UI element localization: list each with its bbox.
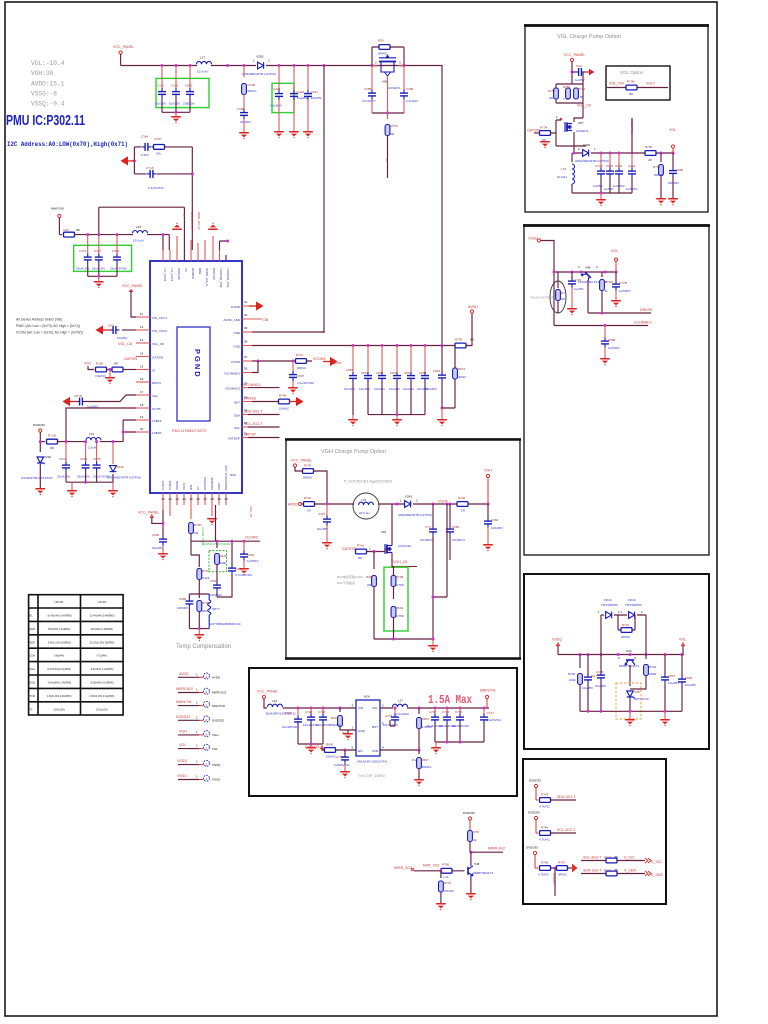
resistor R75D [566, 88, 571, 99]
svg-text:R740: R740 [458, 496, 466, 500]
svg-text:AVDD_GA_E: AVDD_GA_E [205, 268, 209, 286]
svg-text:CY?: CY? [425, 525, 431, 529]
caps CY C360 [432, 504, 434, 526]
main VGL rail [574, 152, 674, 154]
svg-text:EN: EN [358, 749, 362, 753]
resistor R73W [601, 272, 603, 277]
svg-text:10k/NC: 10k/NC [279, 407, 290, 411]
capacitor C60 [571, 71, 574, 74]
svg-text:GHD: GHD [29, 627, 35, 631]
svg-text:APD240EVRTR-G1?PUK: APD240EVRTR-G1?PUK [398, 513, 432, 517]
svg-text:VCOM3: VCOM3 [313, 357, 326, 361]
svg-text:DVDD33: DVDD33 [529, 779, 541, 783]
svg-text:VCOMADJ: VCOMADJ [225, 387, 241, 391]
svg-text:28: 28 [211, 497, 215, 501]
svg-text:U92: U92 [626, 649, 632, 653]
svg-text:40: 40 [244, 313, 248, 317]
wire OSE pin39 [252, 332, 324, 333]
svg-text:LXAVDD_C52: LXAVDD_C52 [219, 268, 223, 288]
svg-text:IO: IO [152, 369, 156, 373]
svg-text:C303: C303 [615, 164, 623, 168]
svg-text:VGHT: VGHT [438, 500, 449, 504]
svg-text:VIN_VCC1: VIN_VCC1 [152, 316, 167, 320]
ground pin29 [207, 518, 217, 525]
svg-text:R684: R684 [422, 717, 430, 721]
svg-text:GATSIN: GATSIN [124, 357, 138, 361]
svg-text:V245: V245 [405, 495, 412, 499]
svg-text:VSSQ: VSSQ [552, 638, 562, 642]
svg-text:PGND: PGND [231, 305, 241, 309]
svg-text:47k/NC: 47k/NC [444, 889, 455, 893]
svg-text:VCOM3: VCOM3 [331, 361, 342, 365]
svg-text:C317: C317 [94, 249, 102, 253]
svg-text:S_SDA: S_SDA [651, 873, 663, 877]
svg-text:VCC_PANEL: VCC_PANEL [113, 45, 134, 49]
svg-text:C301: C301 [112, 249, 120, 253]
capacitor C800 [159, 536, 167, 546]
svg-text:C73?: C73? [385, 714, 393, 718]
inductor L20 [133, 231, 148, 234]
svg-text:VCOMADJ: VCOMADJ [634, 321, 652, 325]
capacitor C301 [116, 235, 118, 254]
wire loop bottom [134, 173, 192, 175]
svg-text:TMT4RWNC: TMT4RWNC [601, 603, 619, 607]
svg-text:R?41: R?41 [622, 623, 630, 627]
svg-text:LXB19: LXB19 [152, 419, 162, 423]
capacitor C845 [367, 346, 369, 373]
svg-text:39: 39 [244, 326, 248, 330]
resistor R974 [442, 346, 455, 409]
svg-text:1u/25V: 1u/25V [574, 287, 584, 291]
IC U1 P302.11 body [150, 261, 242, 493]
svg-text:10u/25V: 10u/25V [152, 546, 163, 550]
svg-text:SCL-3G2-T: SCL-3G2-T [583, 856, 602, 860]
svg-text:2.2u/16V: 2.2u/16V [406, 99, 418, 103]
svg-text:GCBPG9: GCBPG9 [203, 477, 207, 490]
svg-text:VGL: VGL [152, 394, 158, 398]
svg-text:1u/50XV: 1u/50XV [626, 187, 638, 191]
bottom bus b1 [572, 192, 632, 194]
capacitor C389 [403, 66, 405, 91]
capacitor CY78 [615, 272, 617, 281]
svg-text:20k: 20k [367, 583, 372, 587]
svg-text:TMT4RWNC: TMT4RWNC [625, 603, 643, 607]
resistor R740 [457, 502, 468, 507]
svg-text:0R/NC: 0R/NC [248, 89, 258, 93]
svg-text:3G: 3G [385, 158, 389, 162]
resistor R734 [534, 132, 539, 134]
svg-text:23: 23 [176, 497, 180, 501]
svg-text:GATSIN: GATSIN [152, 356, 163, 360]
svg-text:5R/NC: 5R/NC [654, 173, 664, 177]
svg-text:C84?: C84? [390, 371, 398, 375]
svg-text:AO3407L: AO3407L [388, 86, 401, 90]
svg-text:VSSQ: VSSQ [212, 763, 221, 767]
svg-text:0.42k: 0.42k [202, 576, 210, 580]
svg-text:L20: L20 [136, 225, 141, 229]
svg-text:C467: C467 [318, 512, 326, 516]
svg-text:3k: 3k [605, 289, 609, 293]
svg-text:R745: R745 [455, 338, 463, 342]
svg-text:X.2: X.2 [412, 758, 417, 762]
svg-text:RY4B: RY4B [248, 83, 256, 87]
diode V245 [405, 501, 411, 508]
svg-text:C866: C866 [676, 168, 684, 172]
svg-text:10u/25V/NC: 10u/25V/NC [282, 725, 299, 729]
svg-text:17: 17 [140, 390, 144, 394]
diode V206 [583, 150, 589, 157]
svg-text:38: 38 [244, 340, 248, 344]
svg-text:VCC_PANEL: VCC_PANEL [122, 284, 143, 288]
resistor R742 b4 [645, 655, 647, 660]
svg-text:22u/6.3V/NC: 22u/6.3V/NC [452, 724, 470, 728]
conn DVDD33 [176, 715, 224, 723]
green box cap C223 [272, 83, 294, 112]
svg-text:R940: R940 [220, 554, 228, 558]
svg-text:SDA: SDA [234, 414, 241, 418]
capacitor C949 [231, 541, 233, 565]
svg-text:S_SCL: S_SCL [624, 856, 635, 860]
wire bottom bus left [66, 481, 113, 483]
svg-text:C84?: C84? [376, 371, 384, 375]
svg-text:R734: R734 [540, 126, 548, 130]
svg-text:PGN D3: PGN D3 [212, 268, 216, 280]
svg-text:R694: R694 [331, 716, 339, 720]
conn MIRR-3G2 [176, 687, 227, 695]
mosfet V59 [372, 65, 404, 67]
svg-text:C304: C304 [628, 164, 636, 168]
svg-text:0R/NC: 0R/NC [378, 52, 388, 56]
svg-text:R692: R692 [326, 743, 334, 747]
svg-text:C800: C800 [152, 533, 160, 537]
svg-text:2.2uH: 2.2uH [88, 446, 96, 450]
svg-text:C821: C821 [433, 369, 441, 373]
svg-text:V98: V98 [585, 266, 591, 270]
svg-text:2.2u/16V/NC: 2.2u/16V/NC [297, 381, 315, 385]
svg-text:VGL Charge Pump Option: VGL Charge Pump Option [557, 34, 621, 40]
svg-text:19: 19 [140, 415, 144, 419]
box 2 VGL aux [524, 225, 709, 555]
capacitor CH16 [293, 66, 295, 91]
svg-text:0R/NC: 0R/NC [558, 873, 568, 877]
box 5 buck 1.5A [249, 668, 517, 796]
bottom bus b5 [435, 741, 484, 743]
svg-text:CY1?: CY1? [595, 164, 603, 168]
svg-text:10.0uH: 10.0uH [557, 175, 567, 179]
svg-text:22u/6.3V): 22u/6.3V) [77, 475, 90, 479]
resistor R72 [468, 831, 473, 842]
red arrow r3 [572, 864, 578, 873]
svg-text:V59: V59 [382, 80, 388, 84]
svg-text:GB: GB [263, 318, 269, 322]
ground cap bus [396, 415, 398, 419]
svg-text:C84?: C84? [361, 371, 369, 375]
svg-text:C949: C949 [235, 567, 243, 571]
svg-text:VFB: VFB [372, 749, 378, 753]
svg-text:C308: C308 [237, 107, 245, 111]
svg-text:R59: R59 [378, 39, 384, 43]
svg-text:200k: 200k [220, 561, 227, 565]
svg-text:22u/6.3V): 22u/6.3V) [76, 267, 89, 271]
svg-text:DVDD33: DVDD33 [528, 811, 540, 815]
svg-text:VGH_C8: VGH_C8 [249, 506, 253, 518]
svg-text:L17: L17 [398, 699, 403, 703]
svg-text:10u/25V: 10u/25V [403, 387, 414, 391]
gnd pin b5 [348, 730, 356, 733]
capacitor C121 [161, 66, 163, 89]
svg-text:SW: SW [372, 706, 377, 710]
capacitor C364 [142, 143, 152, 151]
svg-text:AVDD_ASD: AVDD_ASD [224, 318, 241, 322]
grounds b1 right [656, 198, 666, 205]
svg-text:LXAVDD_C51: LXAVDD_C51 [226, 268, 230, 288]
svg-text:C808: C808 [608, 338, 616, 342]
ground [175, 112, 177, 116]
svg-text:CH?: CH? [591, 674, 597, 678]
wire OSE riser [323, 66, 325, 334]
resistor R940 [215, 554, 220, 565]
capacitor C302 [609, 153, 611, 168]
svg-text:10.0 uH: 10.0 uH [133, 239, 144, 243]
svg-text:29: 29 [218, 497, 222, 501]
svg-text:MMBT3904LT1: MMBT3904LT1 [473, 871, 494, 875]
diode V22B [258, 62, 264, 69]
svg-text:VSSQ: VSSQ [528, 237, 538, 241]
svg-text:SET: SET [234, 401, 240, 405]
svg-text:C388: C388 [364, 87, 372, 91]
resistor R70 [440, 871, 442, 878]
svg-text:C730: C730 [318, 710, 326, 714]
svg-text:VGL_INV: VGL_INV [609, 82, 625, 86]
svg-text:C22: C22 [63, 228, 69, 232]
svg-text:26: 26 [197, 497, 201, 501]
svg-text:S: S [183, 213, 185, 217]
resistor R737 [154, 145, 165, 150]
svg-text:CT1?: CT1? [487, 711, 495, 715]
svg-text:R?: R? [561, 291, 565, 295]
capacitor C940 [213, 582, 221, 592]
svg-text:14: 14 [140, 352, 144, 356]
bottom bus b3 [374, 638, 433, 640]
IC N24 [356, 700, 380, 756]
svg-text:10k/NC: 10k/NC [422, 765, 433, 769]
svg-text:L27: L27 [200, 56, 205, 60]
svg-text:M0R_3G2: M0R_3G2 [423, 864, 439, 868]
svg-text:R?5?: R?5? [558, 861, 566, 865]
capacitor CY b4 [587, 655, 589, 675]
svg-text:PGN D8: PGN D8 [177, 268, 181, 280]
svg-text:CH17: CH17 [311, 90, 319, 94]
svg-text:N00: N00 [230, 473, 236, 477]
wire cap bus [88, 275, 117, 277]
svg-text:R15?: R15? [548, 89, 556, 93]
mosfet loop top wire [372, 47, 404, 66]
svg-text:R?85: R?85 [442, 863, 450, 867]
resistor R698 [418, 750, 420, 754]
IC bottom pin stubs [163, 493, 226, 519]
svg-text:C728: C728 [284, 711, 292, 715]
resistor R280 [373, 552, 375, 570]
svg-text:S_SDA: S_SDA [624, 869, 636, 873]
svg-text:3.3k/NC: 3.3k/NC [95, 374, 107, 378]
svg-text:DVDD33: DVDD33 [305, 745, 319, 749]
svg-text:30V(±4%) 0.4A(RMS): 30V(±4%) 0.4A(RMS) [48, 628, 71, 631]
svg-text:100u/25V: 100u/25V [424, 387, 437, 391]
svg-text:APD240EVRTR-G1?PUK: APD240EVRTR-G1?PUK [575, 159, 609, 163]
IC U1 inner PGND box [177, 327, 210, 421]
resistor R745 b6 [540, 866, 551, 871]
svg-text:CY16: CY16 [146, 166, 154, 170]
svg-text:IEN: IEN [189, 485, 193, 490]
svg-text:R73D: R73D [578, 87, 587, 91]
conn AVDD [178, 672, 221, 680]
resistor R736 [645, 151, 656, 156]
svg-text:VSSG:-8: VSSG:-8 [31, 91, 57, 98]
svg-text:SCL-3G2-T: SCL-3G2-T [244, 422, 263, 426]
svg-text:CH16: CH16 [297, 90, 305, 94]
svg-text:VCOM (A0: Low = (0x76); A0: Hi: VCOM (A0: Low = (0x76); A0: High = (0x7W… [16, 331, 83, 335]
svg-text:PMU IC:P302.11: PMU IC:P302.11 [6, 113, 85, 129]
svg-text:OSE: OSE [233, 331, 240, 335]
svg-text:1.8((±1.0%) 0.4A(RMS): 1.8((±1.0%) 0.4A(RMS) [47, 695, 72, 698]
svg-text:22u/6.3V): 22u/6.3V) [92, 267, 105, 271]
svg-text:VGL_C8: VGL_C8 [152, 342, 164, 346]
input arrow C40 [96, 325, 111, 334]
svg-text:VGH_C8: VGH_C8 [393, 560, 407, 564]
svg-text:OUTB: OUTB [152, 407, 161, 411]
bottom pin numbers [162, 497, 229, 501]
svg-text:DVDD33: DVDD33 [33, 423, 45, 427]
svg-text:C801: C801 [185, 84, 193, 88]
SW rail [380, 707, 489, 709]
svg-text:VGL:-10.4: VGL:-10.4 [31, 60, 65, 67]
svg-text:L19: L19 [89, 432, 94, 436]
capacitor C936 [85, 442, 87, 462]
A0 device address note [16, 318, 83, 335]
bottom bus b4 [580, 710, 682, 712]
capacitor CT16 [483, 708, 485, 714]
svg-text:16: 16 [140, 377, 144, 381]
svg-text:1M: 1M [194, 531, 199, 535]
svg-text:1u/50XV: 1u/50XV [608, 346, 620, 350]
resistor R151 [556, 72, 583, 118]
svg-text:R?40: R?40 [568, 672, 576, 676]
svg-text:10u/25V: 10u/25V [389, 387, 400, 391]
capacitor C730 [322, 708, 324, 714]
svg-text:R28?: R28? [366, 575, 374, 579]
svg-text:SCL: SCL [234, 426, 240, 430]
inner box VGL Option [606, 66, 670, 100]
resistor R73N [189, 523, 194, 534]
green box dividers R738 R649 [384, 567, 408, 631]
inductor L78 vert [571, 153, 573, 162]
svg-text:VIN_VCC2: VIN_VCC2 [152, 329, 167, 333]
capacitor C726 [446, 708, 448, 714]
zener V210 [39, 442, 41, 452]
svg-text:A0 Device Address Select (Tab): A0 Device Address Select (Tab): [16, 318, 63, 322]
capacitor C122 [175, 66, 177, 89]
svg-text:MMBT3904LT1: MMBT3904LT1 [619, 664, 640, 668]
svg-text:R742: R742 [304, 496, 312, 500]
capacitor C732 [344, 750, 346, 754]
svg-text:25: 25 [190, 497, 194, 501]
resistor R2B 0R [40, 441, 45, 443]
svg-text:10u/XV/NC: 10u/XV/NC [487, 718, 503, 722]
svg-text:1?u/16V/?: 1?u/16V/? [362, 99, 376, 103]
svg-text:C707: C707 [429, 710, 437, 714]
box 4 VSSQ-VGL clamp [524, 574, 709, 749]
svg-text:-10.4V(±4%) 0.4A(RMS): -10.4V(±4%) 0.4A(RMS) [47, 615, 72, 618]
ground bus [71, 482, 73, 490]
capacitor C729 [310, 708, 312, 714]
capacitor C720 [571, 272, 573, 278]
svg-text:C223: C223 [273, 87, 281, 91]
capacitor C707 [434, 708, 436, 714]
svg-text:9R/NC: 9R/NC [303, 476, 313, 480]
resistor R151 0R [107, 369, 113, 371]
svg-text:GATSIN: GATSIN [527, 129, 541, 133]
svg-text:C60: C60 [576, 64, 582, 68]
svg-text:V61: V61 [381, 530, 387, 534]
zener V28 [629, 665, 631, 686]
svg-text:VCC_PANEL: VCC_PANEL [138, 511, 159, 515]
svg-text:DK2不同极点: DK2不同极点 [337, 580, 355, 585]
IC right pin numbers [244, 300, 248, 436]
svg-text:C365: C365 [596, 670, 604, 674]
svg-text:VIN: VIN [358, 706, 363, 710]
wire MIRR-3G2 out [471, 851, 503, 853]
resistor R740 b4 [579, 655, 581, 669]
svg-text:10u/25V: 10u/25V [668, 681, 679, 685]
resistor R741 [355, 551, 356, 553]
svg-text:10u/25V: 10u/25V [374, 387, 385, 391]
svg-text:V7: V7 [196, 486, 200, 490]
svg-text:MIRR_3G2_B: MIRR_3G2_B [197, 212, 201, 230]
capacitor C303 [618, 153, 620, 168]
capacitor CPN pin17 [86, 395, 136, 402]
svg-text:R?44: R?44 [541, 826, 549, 830]
svg-text:36: 36 [244, 367, 248, 371]
capacitor C736 [459, 708, 461, 714]
svg-text:R974: R974 [458, 367, 466, 371]
IC left pin numbers [140, 312, 144, 431]
svg-text:R?41: R?41 [357, 544, 365, 548]
resistor R71F [191, 541, 199, 567]
svg-text:S_SCL: S_SCL [651, 860, 662, 864]
svg-text:22: 22 [169, 497, 173, 501]
svg-text:22B/25V: 22B/25V [183, 102, 195, 106]
svg-text:1.5A Max: 1.5A Max [428, 693, 472, 707]
svg-text:22u/6.3V/NC: 22u/6.3V/NC [110, 267, 128, 271]
wire VCOM pin37 [252, 360, 312, 362]
svg-text:R69?: R69? [422, 758, 430, 762]
svg-text:3.75K: 3.75K [396, 614, 404, 618]
svg-text:VD C: VD C [182, 482, 186, 490]
svg-text:GND: GND [358, 729, 366, 733]
wire temp comp bus [189, 628, 209, 630]
svg-text:7.5R: 7.5R [578, 95, 585, 99]
svg-text:5.4V/±1.0%) 2A(RMS): 5.4V/±1.0%) 2A(RMS) [48, 641, 71, 644]
svg-text:R?70: R?70 [444, 881, 452, 885]
wire VCOM3 lower rail [191, 505, 260, 548]
svg-text:4.7u/16V/NC: 4.7u/16V/NC [235, 573, 253, 577]
svg-text:AGND: AGND [175, 480, 179, 490]
svg-text:R?2: R?2 [474, 830, 480, 834]
capacitor C849 [424, 346, 426, 373]
svg-text:C936: C936 [80, 457, 88, 461]
svg-text:10u/50XV: 10u/50XV [420, 538, 433, 542]
svg-text:VSSG: VSSG [212, 778, 221, 782]
